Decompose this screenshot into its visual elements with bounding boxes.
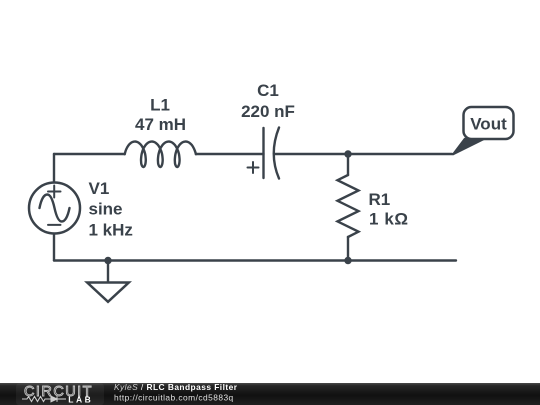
logo panel highlight (16, 384, 104, 405)
capacitor C1 plate right (curved) (274, 128, 279, 179)
svg-text:http://circuitlab.com/cd5883q: http://circuitlab.com/cd5883q (114, 393, 234, 403)
svg-text:LAB: LAB (68, 395, 93, 405)
Vout flag box (464, 107, 514, 139)
resistor R1 zigzag (338, 175, 359, 237)
wire V1 bottom stub (53, 234, 55, 261)
footer bar (0, 383, 540, 405)
capacitor C1 plus sign (248, 162, 259, 173)
node junction dot ground (104, 257, 111, 264)
svg-text:47 mH: 47 mH (135, 115, 186, 134)
wire R1 bottom stub (347, 237, 349, 261)
logo wire-resistor-diode (22, 396, 66, 402)
svg-text:sine: sine (89, 200, 123, 219)
V1 minus sign (48, 224, 61, 226)
wire top rail left: V1 to L1 (54, 153, 125, 155)
svg-text:L1: L1 (150, 95, 170, 114)
wire L1 to C1 (196, 153, 264, 155)
ground triangle (87, 283, 129, 302)
wire C1 to Vout tail (275, 153, 453, 155)
inductor L1 (125, 142, 196, 168)
wire bottom rail (54, 259, 456, 261)
capacitor C1 plate left (262, 128, 264, 178)
svg-text:R1: R1 (369, 190, 391, 209)
node junction dot bottom (R1) (344, 257, 351, 264)
V1 sine wave (40, 195, 70, 222)
svg-text:V1: V1 (89, 179, 110, 198)
Vout flag tail (453, 139, 485, 155)
wire R1 top stub (347, 154, 349, 175)
wire V1 top stub (53, 154, 55, 182)
svg-text:C1: C1 (257, 81, 279, 100)
ground stub (107, 261, 109, 283)
svg-text:220 nF: 220 nF (241, 102, 295, 121)
svg-text:Vout: Vout (470, 115, 507, 134)
svg-text:KyleS / RLC Bandpass Filter: KyleS / RLC Bandpass Filter (114, 382, 238, 392)
svg-text:1 kΩ: 1 kΩ (369, 210, 409, 229)
node junction dot top (R1/Vout) (344, 150, 351, 157)
V1 plus sign (48, 186, 61, 198)
voltage source V1 circle (29, 183, 80, 234)
svg-text:1 kHz: 1 kHz (89, 220, 133, 239)
